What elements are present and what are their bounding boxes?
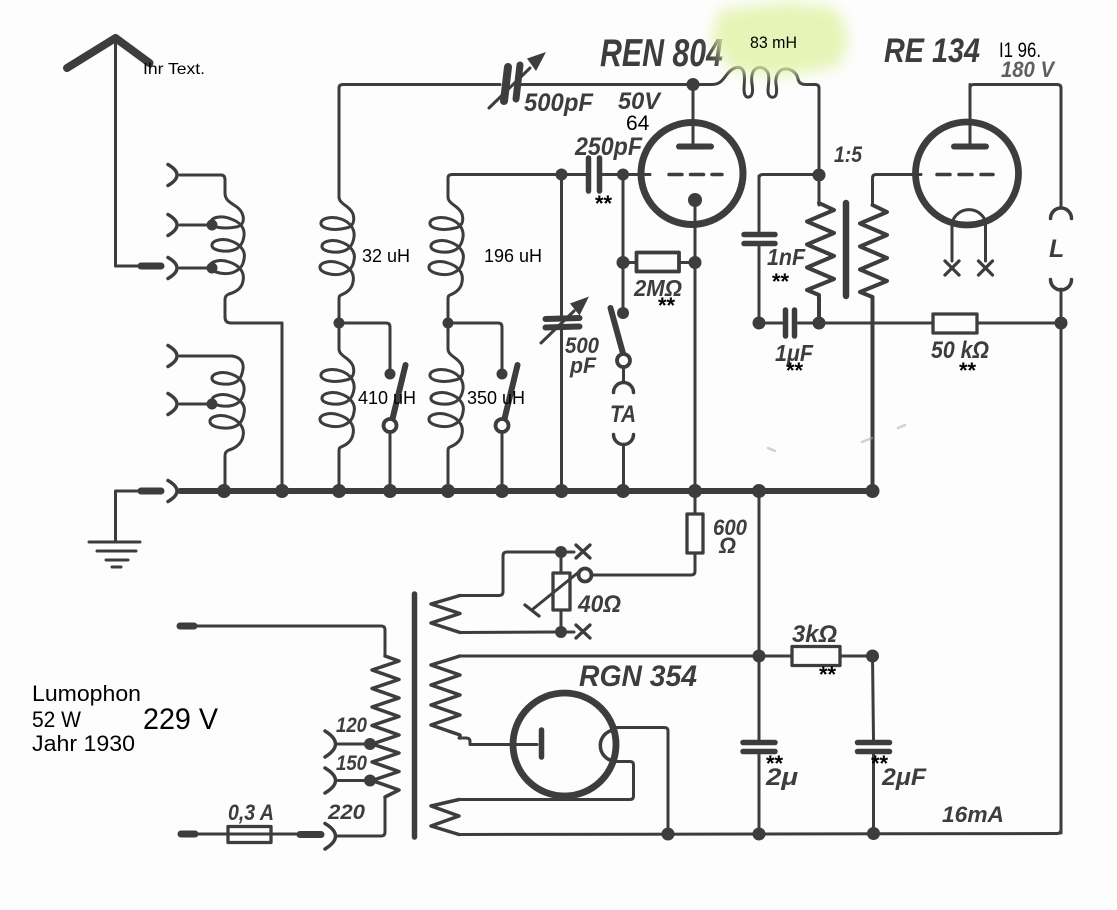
wire pot top [561, 551, 574, 554]
wire W1 bottom to pot [460, 631, 555, 635]
winding W1 heater [431, 596, 460, 633]
plug P2 ground [141, 488, 161, 495]
node SW3 top [617, 307, 629, 319]
wire J2 tap [180, 224, 213, 227]
svg-text:TA: TA [610, 401, 636, 428]
transformer T2 core [412, 594, 418, 837]
transformer T1 core [843, 203, 850, 296]
wire V3 filament top to rail [614, 728, 668, 832]
jack J3 [168, 258, 177, 279]
svg-text:**: ** [595, 191, 613, 216]
wire branch to SW1 [339, 323, 390, 370]
svg-text:32 uH: 32 uH [362, 246, 410, 266]
wire choke to transformer T1 [815, 85, 819, 173]
node rail filament [662, 828, 675, 841]
wire bottom rail [459, 400, 1061, 835]
coil L4 410uH [320, 323, 354, 488]
wire top tank [339, 85, 500, 89]
node C2 left [556, 169, 568, 181]
node pot bottom [555, 626, 567, 638]
jack J5 [168, 394, 177, 415]
tube V2 anode plate [954, 144, 986, 150]
tube V2 filament legs [952, 223, 986, 261]
wire W2 bottom to V3 anode [459, 738, 537, 745]
resistor R5 3k [792, 647, 840, 666]
jack tap 220 [325, 824, 336, 850]
coil L2 secondary [210, 356, 244, 488]
wire 3k left [756, 655, 792, 658]
switch SW2 blade [504, 365, 518, 423]
winding W3 rectifier heater [431, 800, 459, 835]
node bus SW1 [383, 484, 397, 498]
wire 2uF line [873, 656, 874, 831]
wire SW3 to TA jack [622, 367, 625, 383]
jack L lower [1051, 280, 1072, 291]
wire cathode down [694, 200, 697, 488]
tube V3 filament arc [600, 730, 613, 761]
svg-text:180 V: 180 V [1001, 57, 1056, 82]
node tap 150 [364, 775, 376, 787]
wire 2u line [758, 491, 761, 740]
svg-text:REN 804: REN 804 [600, 31, 723, 75]
svg-text:64: 64 [626, 112, 650, 135]
svg-text:Jahr 1930: Jahr 1930 [32, 731, 135, 756]
jack J2 [168, 215, 177, 236]
node SW1 top [385, 369, 396, 380]
node 3k right [866, 650, 879, 663]
svg-text:**: ** [658, 293, 676, 318]
winding W2 HV [431, 656, 460, 738]
wire V2 anode to top rail [970, 85, 1061, 208]
transformer T1 primary winding [807, 203, 834, 319]
wire L1 bottom to bus [225, 317, 282, 488]
node bus L1 [275, 484, 289, 498]
jack J1 [168, 165, 177, 186]
node tap L1b [207, 263, 218, 274]
svg-text:2μF: 2μF [881, 764, 927, 791]
wire 196uH top [448, 175, 559, 198]
svg-text:L: L [1049, 235, 1064, 263]
node bus cathode [688, 484, 702, 498]
svg-text:500pF: 500pF [524, 89, 594, 117]
choke 83mH [693, 67, 815, 97]
capacitor C6 2u [743, 743, 775, 832]
tube V1 anode wire [692, 85, 695, 147]
wire SW1 to bus [389, 432, 392, 489]
tube V3 anode plate [539, 730, 545, 757]
svg-text:250pF: 250pF [574, 133, 643, 161]
node 32uH/410uH [334, 318, 345, 329]
wire pot bottom [561, 631, 574, 634]
svg-text:pF: pF [569, 353, 596, 378]
wire branch to SW2 [448, 323, 502, 370]
tube V1 anode plate [679, 144, 711, 150]
terminal x pot top [576, 545, 590, 558]
ground symbol [89, 542, 140, 567]
terminal x pot bottom [576, 625, 590, 638]
svg-text:1:5: 1:5 [834, 142, 863, 167]
node tap L1a [207, 220, 218, 231]
coil L5 196uH [429, 197, 463, 320]
capacitor C3 500pF variable [546, 175, 580, 489]
svg-text:196 uH: 196 uH [484, 246, 542, 266]
svg-text:Ihr Text.: Ihr Text. [143, 61, 205, 78]
resistor R4 40ohm body [553, 552, 570, 632]
value 500 pF [565, 333, 600, 378]
jack L upper [1051, 208, 1072, 219]
wire antenna to plug [116, 265, 139, 268]
svg-text:RGN 354: RGN 354 [579, 660, 697, 693]
jack tap 120 [325, 731, 336, 757]
svg-text:410 uH: 410 uH [358, 388, 416, 408]
wire L to node [1060, 289, 1063, 833]
svg-text:220: 220 [327, 801, 365, 824]
jack tap 150 [325, 768, 336, 793]
node rail 2u [753, 828, 766, 841]
svg-text:83 mH: 83 mH [750, 33, 797, 52]
wire grid node down [622, 175, 625, 311]
wire plate circuit: choke node to 1nF corner [759, 175, 816, 179]
svg-text:Lumophon: Lumophon [32, 681, 141, 706]
wire 32uH top [338, 88, 341, 197]
coil L6 350uH [429, 323, 463, 488]
svg-text:**: ** [786, 358, 804, 383]
jack J6 [168, 481, 177, 502]
node bus C1uF [752, 484, 766, 498]
tube V1 grid dashes [669, 173, 722, 177]
node T1 primary top [813, 169, 826, 182]
node bus 196uH [441, 484, 455, 498]
node tap 120 [364, 738, 376, 750]
wire J3 tap [180, 267, 213, 270]
node bus 32uH [332, 484, 346, 498]
scan smudge marks [768, 425, 905, 451]
jack J4 [168, 346, 177, 367]
antenna symbol [67, 38, 150, 266]
jack TA lower [614, 435, 634, 445]
wire 3k right [840, 655, 873, 658]
node bus SW2 [495, 484, 509, 498]
tube V3 RGN354 envelope [513, 693, 616, 796]
wire SW2 to bus [501, 432, 504, 489]
switch SW1 contact [384, 419, 397, 432]
wire TA to bus [622, 445, 625, 488]
wire J1 to coil L1 top [180, 174, 221, 177]
plug P4 mains low [181, 831, 195, 838]
wire 220 to winding bottom [338, 797, 385, 836]
switch SW3 contact [617, 354, 630, 367]
svg-text:150: 150 [336, 752, 367, 775]
node tap L2a [207, 399, 218, 410]
switch SW3 blade [611, 308, 625, 357]
node bus C500 [555, 484, 569, 498]
tube V2 grid dashes [937, 173, 993, 177]
capacitor C3 arrow [541, 297, 589, 344]
node T1 primary bottom [813, 317, 826, 330]
svg-text:Ω: Ω [718, 533, 736, 558]
capacitor C5 1uF [761, 310, 816, 336]
svg-text:0,3 A: 0,3 A [228, 800, 274, 825]
plug P5 [300, 831, 321, 838]
svg-text:52 W: 52 W [32, 707, 81, 732]
wire tap 150 [338, 779, 370, 782]
svg-text:16mA: 16mA [942, 802, 1004, 827]
tube V2 RE134 envelope [916, 122, 1019, 225]
node bus L2 [217, 484, 231, 498]
capacitor C1 arrow [489, 52, 546, 108]
ground wire from bus corner [116, 491, 139, 542]
svg-text:RE 134: RE 134 [884, 31, 980, 69]
svg-text:2μ: 2μ [765, 764, 799, 791]
svg-text:**: ** [959, 358, 977, 383]
wire W1 top to pot [459, 552, 555, 596]
wire to fuse [196, 833, 298, 836]
svg-text:50V: 50V [618, 88, 662, 115]
fuse F1 [228, 827, 271, 843]
value 600 Ohm [713, 515, 748, 558]
node bus TA [616, 484, 630, 498]
svg-text:120: 120 [336, 714, 367, 737]
node 3k left [753, 650, 766, 663]
highlight mark green [711, 2, 849, 77]
jack TA upper [614, 383, 634, 393]
wire bus to 600ohm [694, 491, 697, 514]
resistor R2 50k [933, 314, 1058, 333]
transformer T1 primary wire [818, 175, 821, 205]
tube V1 cathode [688, 193, 702, 207]
node bus transformer [866, 484, 880, 498]
svg-text:40Ω: 40Ω [577, 591, 621, 618]
node rail 2uF [867, 827, 880, 840]
node output [1055, 317, 1068, 330]
wire mains top [196, 626, 385, 656]
wire to 50k [819, 322, 932, 325]
svg-text:**: ** [772, 269, 790, 294]
node 2M left [617, 256, 630, 269]
wire T1 secondary top to RE134 grid [873, 175, 922, 206]
wire tap 120 [338, 743, 370, 746]
svg-text:**: ** [819, 662, 837, 687]
tube V2 anode wire [969, 85, 972, 147]
node 196uH/350uH [443, 318, 454, 329]
coil L3 32uH [320, 197, 354, 320]
svg-text:350 uH: 350 uH [467, 388, 525, 408]
tube V1 REN804 envelope [641, 123, 743, 225]
resistor R1 2Mohm [629, 253, 689, 272]
transformer T1 secondary winding [860, 205, 887, 488]
wire 600ohm to pot wiper [592, 574, 691, 577]
plug P3 mains [180, 623, 194, 630]
capacitor C2 250pF [563, 158, 650, 191]
wire W2 top to 3k [459, 655, 756, 658]
resistor R3 600ohm [687, 514, 703, 575]
bus wire chassis [180, 488, 873, 494]
switch SW1 blade [392, 365, 406, 423]
node SW2 top [497, 369, 508, 380]
wire J5 tap [180, 403, 213, 406]
wire V3 filament bottom to W3 [459, 762, 634, 800]
coil L1 antenna primary [210, 175, 244, 317]
plug P1 [141, 263, 161, 270]
svg-text:229 V: 229 V [143, 703, 218, 736]
transformer T2 primary winding [372, 656, 399, 797]
node 2M right [689, 256, 702, 269]
capacitor C1 500pF variable plates [504, 65, 520, 101]
switch SW2 contact [496, 419, 509, 432]
wire C1 to anode node [519, 83, 690, 86]
svg-text:1nF: 1nF [767, 244, 806, 270]
node C5 left [753, 317, 766, 330]
tube V2 filament arc [952, 210, 986, 223]
potentiometer R4 arrow [525, 571, 580, 616]
capacitor C7 2uF [858, 743, 890, 752]
node grid REN [617, 169, 629, 181]
potentiometer R4 40ohm wiper [579, 569, 592, 582]
node anode top [687, 78, 700, 91]
terminal x marks V2 [945, 261, 993, 275]
svg-text:3kΩ: 3kΩ [792, 621, 837, 648]
capacitor C4 1nF [744, 176, 775, 319]
wire J4 to coil L2 top [180, 355, 232, 358]
node pot top [555, 546, 567, 558]
